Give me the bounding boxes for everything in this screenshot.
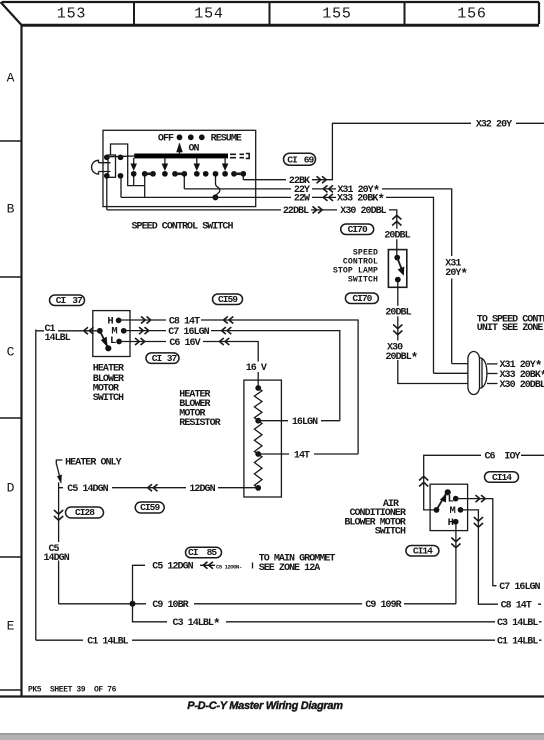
svg-text:L: L <box>110 335 116 347</box>
svg-text:IOY: IOY <box>504 452 520 463</box>
svg-text:CI: CI <box>287 154 298 165</box>
svg-text:20DBL: 20DBL <box>384 230 410 241</box>
svg-text:CI: CI <box>56 295 67 306</box>
svg-text:22DBL: 22DBL <box>283 206 309 217</box>
svg-text:C9 109R: C9 109R <box>365 600 401 611</box>
svg-text:C6 16V: C6 16V <box>169 338 200 349</box>
svg-text:C5 12OGN-: C5 12OGN- <box>216 563 242 570</box>
svg-text:CI59: CI59 <box>140 502 160 513</box>
svg-text:153: 153 <box>57 6 86 23</box>
svg-text:X30 20DBL: X30 20DBL <box>500 380 544 391</box>
svg-text:CI14: CI14 <box>413 545 433 556</box>
svg-text:D: D <box>7 481 15 496</box>
svg-text:X32 20Y: X32 20Y <box>476 120 512 131</box>
svg-text:CI: CI <box>152 353 163 364</box>
svg-text:C5 12DGN: C5 12DGN <box>152 562 193 573</box>
svg-text:L: L <box>448 494 454 506</box>
svg-text:C6: C6 <box>485 452 496 463</box>
svg-text:X30 20DBL: X30 20DBL <box>340 206 386 217</box>
svg-text:156: 156 <box>457 6 486 23</box>
svg-text:CI28: CI28 <box>75 507 95 518</box>
svg-text:CI70: CI70 <box>348 224 368 235</box>
svg-text:37: 37 <box>72 295 83 306</box>
svg-text:14LBL: 14LBL <box>45 333 71 344</box>
svg-text:C7 16LGN: C7 16LGN <box>499 582 540 593</box>
svg-text:37: 37 <box>167 353 178 364</box>
svg-text:HEATER ONLY: HEATER ONLY <box>65 458 122 469</box>
svg-text:B: B <box>7 202 15 217</box>
svg-text:C8 14T: C8 14T <box>501 601 532 612</box>
svg-text:14DGN: 14DGN <box>44 553 70 564</box>
svg-text:ON: ON <box>188 144 199 155</box>
svg-text:M: M <box>450 505 456 517</box>
svg-text:C7 16LGN: C7 16LGN <box>168 327 209 338</box>
svg-text:69: 69 <box>304 154 315 165</box>
svg-text:C5 14DGN: C5 14DGN <box>67 484 108 495</box>
svg-text:H: H <box>448 517 454 529</box>
svg-text:20DBL: 20DBL <box>385 308 411 319</box>
svg-text:PK5 SHEET 39 OF 76: PK5 SHEET 39 OF 76 <box>28 686 117 695</box>
svg-text:C1 14LBL: C1 14LBL <box>497 637 538 648</box>
svg-text:UNIT SEE ZONE 1: UNIT SEE ZONE 1 <box>477 323 544 334</box>
svg-text:C9 10BR: C9 10BR <box>152 600 188 611</box>
svg-text:SEE ZONE 12A: SEE ZONE 12A <box>259 563 321 574</box>
svg-text:SWITCH: SWITCH <box>375 527 406 538</box>
svg-text:RESISTOR: RESISTOR <box>179 418 220 429</box>
svg-text:16 V: 16 V <box>246 363 267 374</box>
svg-text:C1 14LBL: C1 14LBL <box>87 637 128 648</box>
svg-text:14T: 14T <box>294 450 310 461</box>
svg-text:12DGN: 12DGN <box>189 484 215 495</box>
svg-text:CI: CI <box>188 547 199 558</box>
svg-text:SWITCH: SWITCH <box>93 393 124 404</box>
svg-text:154: 154 <box>194 6 223 23</box>
svg-text:OFF: OFF <box>158 133 174 144</box>
svg-text:STOP LAMP: STOP LAMP <box>333 267 378 276</box>
svg-text:CONTROL: CONTROL <box>343 258 378 267</box>
svg-text:SPEED: SPEED <box>353 248 378 257</box>
svg-text:CI59: CI59 <box>218 294 238 305</box>
svg-text:SWITCH: SWITCH <box>348 276 378 285</box>
svg-text:155: 155 <box>322 6 351 23</box>
svg-text:CI70: CI70 <box>352 293 372 304</box>
svg-text:C: C <box>7 345 15 360</box>
svg-text:22W: 22W <box>294 194 310 205</box>
svg-text:RESUME: RESUME <box>211 133 242 144</box>
svg-text:SPEED CONTROL SWITCH: SPEED CONTROL SWITCH <box>131 222 233 233</box>
svg-text:CI14: CI14 <box>492 472 512 483</box>
svg-text:E: E <box>7 619 15 634</box>
svg-text:C3 14LBL: C3 14LBL <box>497 618 538 629</box>
svg-text:A: A <box>7 71 15 86</box>
svg-text:16LGN: 16LGN <box>292 417 318 428</box>
svg-text:85: 85 <box>207 547 218 558</box>
svg-text:P-D-C-Y Master Wiring Diagram: P-D-C-Y Master Wiring Diagram <box>187 700 343 712</box>
